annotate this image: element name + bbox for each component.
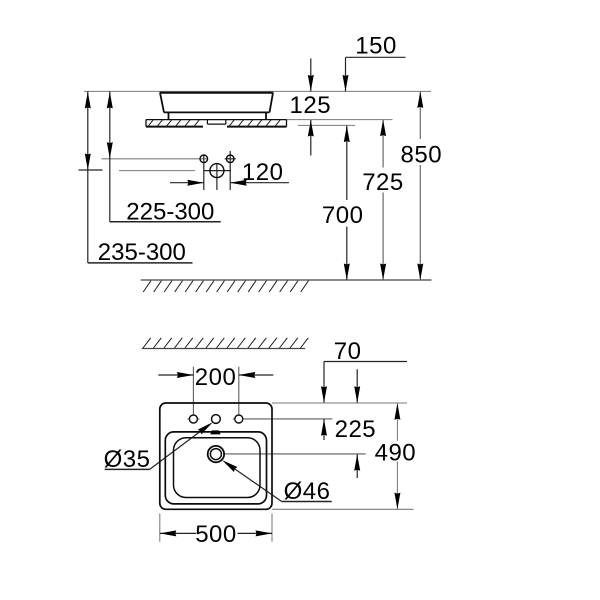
svg-text:500: 500 [195, 521, 237, 548]
svg-text:Ø46: Ø46 [284, 478, 331, 505]
svg-text:225: 225 [335, 416, 377, 443]
svg-text:125: 125 [290, 92, 332, 119]
svg-text:235-300: 235-300 [98, 239, 186, 266]
svg-text:150: 150 [355, 32, 397, 59]
svg-text:200: 200 [195, 364, 237, 391]
svg-text:225-300: 225-300 [126, 198, 214, 225]
svg-text:850: 850 [401, 142, 443, 169]
svg-text:120: 120 [242, 159, 284, 186]
svg-text:700: 700 [322, 202, 364, 229]
svg-text:490: 490 [375, 439, 417, 466]
svg-text:70: 70 [334, 338, 362, 365]
svg-text:Ø35: Ø35 [104, 446, 151, 473]
svg-text:725: 725 [362, 169, 404, 196]
